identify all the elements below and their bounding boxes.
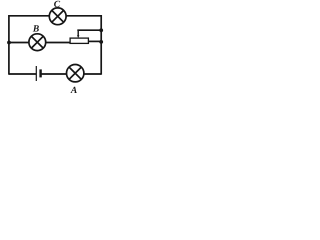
svg-text:A: A (70, 86, 77, 94)
wire middle branch from left junction to lamp B (9, 42, 29, 44)
svg-text:C: C (54, 0, 61, 10)
wire right vertical (100, 15, 102, 75)
junction node right (resistor branch) (99, 40, 103, 44)
wire bottom-left (battery left lead) (9, 73, 36, 75)
lamp C (49, 8, 66, 25)
junction node left (middle branch) (7, 41, 11, 45)
resistor R (rheostat body) (70, 38, 88, 43)
svg-text:B: B (32, 25, 39, 35)
wire top-right horizontal (66, 15, 101, 17)
battery cell: short negative plate (39, 69, 41, 77)
wire rheostat right to right vertical (89, 40, 102, 42)
wire lamp B to rheostat (46, 42, 71, 44)
wire battery to lamp A (41, 73, 67, 75)
wire rheostat wiper to right vertical (77, 29, 101, 31)
wire top-left horizontal (9, 15, 49, 17)
rheostat wiper arm with arrowhead (77, 30, 79, 38)
wire lamp A to right vertical (84, 73, 102, 75)
lamp B (29, 34, 46, 51)
junction node right (wiper branch) (99, 28, 103, 32)
lamp A (67, 65, 84, 82)
wire left vertical (8, 15, 10, 75)
battery cell: long positive plate (35, 66, 37, 81)
